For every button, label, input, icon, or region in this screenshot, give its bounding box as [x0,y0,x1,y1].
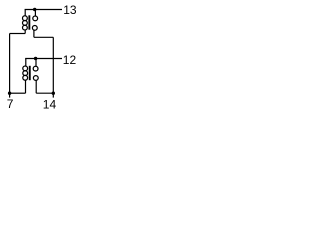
wire: left trunk down to pin 7 [9,34,11,98]
wire: T2 right tail [35,80,37,93]
wire: T1 left tail [24,30,26,34]
wire: T1 right tail [33,30,35,37]
svg-text:7: 7 [7,97,14,111]
wire: T2 top-left stub [25,59,27,67]
svg-text:13: 13 [63,3,77,17]
transformer T2 core bar [29,66,31,80]
transformer T2 right winding (2 loops) [33,66,38,80]
wire: horizontal to left trunk [10,33,26,35]
node: junction dot on left trunk [8,92,11,95]
transformer T1 left winding (3 loops) [23,16,28,30]
wire: T2 left tail [25,80,27,93]
transformer T1 right winding (2 loops) [32,16,37,30]
wire: right trunk down to pin 14 [52,37,54,97]
svg-text:14: 14 [43,97,57,111]
wire: T2 top-right stub [35,59,37,67]
wire: bottom-right branch [36,92,53,94]
wire: pin 12 line [25,58,62,60]
transformer T1 core bar [28,15,30,29]
wire: horizontal to right trunk [34,36,53,38]
wire: T1 top-right stub [34,10,36,17]
svg-text:12: 12 [63,53,77,67]
wire: T1 top-left stub [24,10,26,16]
node: junction dot on pin 12 line [34,57,37,60]
node: junction dot on right trunk [52,92,55,95]
wire: pin 13 line [25,9,62,11]
transformer T2 left winding (3 loops) [23,66,28,80]
wire: bottom-left branch [10,92,26,94]
node: junction dot on pin 13 line [33,8,36,11]
